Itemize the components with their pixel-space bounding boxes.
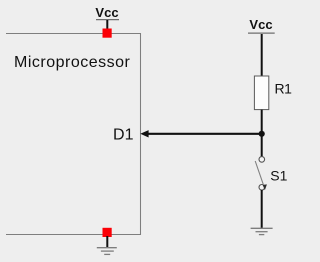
wire bottom pin to ground: [106, 236, 108, 248]
power Vcc (top-left rail symbol): [95, 5, 119, 20]
wire switch S1 to ground: [261, 190, 263, 228]
wire node A to D1 arrow (horizontal): [146, 133, 262, 135]
ground (right, under switch): [251, 228, 273, 234]
svg-text:S1: S1: [270, 168, 287, 184]
svg-text:Vcc: Vcc: [95, 5, 118, 20]
resistor R1: [254, 76, 268, 110]
arrowhead into microprocessor (signal D1): [140, 130, 148, 137]
svg-text:Microprocessor: Microprocessor: [14, 54, 131, 71]
power Vcc (top-right rail symbol): [248, 17, 275, 33]
pin (red square, bottom of microprocessor): [103, 228, 112, 237]
ground (left, under microprocessor): [97, 248, 117, 255]
node A (junction dot): [259, 131, 265, 137]
svg-text:D1: D1: [113, 127, 134, 144]
wire Vcc rail to microprocessor pin: [106, 20, 108, 32]
wire resistor R1 to node A: [261, 110, 263, 134]
wire node A to switch S1: [261, 134, 263, 157]
pin (red square, top of microprocessor): [103, 29, 112, 38]
svg-text:Vcc: Vcc: [249, 17, 272, 32]
microprocessor box U1 (open on left): [6, 34, 141, 235]
switch S1: [255, 157, 267, 191]
svg-text:R1: R1: [275, 80, 293, 96]
wire Vcc rail to resistor R1: [261, 34, 263, 77]
